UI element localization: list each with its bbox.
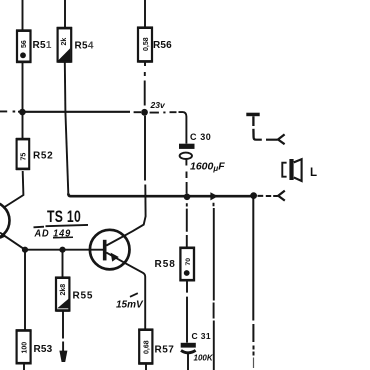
svg-text:23v: 23v xyxy=(150,100,166,110)
svg-text:0,68: 0,68 xyxy=(143,340,150,354)
svg-text:R58: R58 xyxy=(155,259,176,270)
svg-text:R55: R55 xyxy=(73,291,94,302)
svg-text:0,58: 0,58 xyxy=(143,37,150,51)
svg-text:R57: R57 xyxy=(155,344,175,355)
svg-text:R53: R53 xyxy=(34,344,53,355)
svg-text:70: 70 xyxy=(185,258,192,266)
svg-text:1600μF: 1600μF xyxy=(190,161,225,174)
svg-text:R56: R56 xyxy=(153,40,172,51)
svg-text:100K: 100K xyxy=(194,354,214,363)
svg-text:75: 75 xyxy=(20,153,27,161)
svg-text:C 30: C 30 xyxy=(190,132,211,142)
svg-text:56: 56 xyxy=(21,40,28,48)
svg-text:L: L xyxy=(310,167,317,179)
svg-text:TS 10: TS 10 xyxy=(47,208,81,226)
svg-text:C 31: C 31 xyxy=(192,331,212,341)
svg-text:R54: R54 xyxy=(75,40,94,51)
svg-text:AD 149: AD 149 xyxy=(34,228,72,239)
svg-text:100: 100 xyxy=(21,342,28,354)
svg-text:2k8: 2k8 xyxy=(60,284,67,296)
svg-text:R51: R51 xyxy=(33,40,52,51)
svg-text:2k: 2k xyxy=(61,38,68,46)
svg-text:R52: R52 xyxy=(33,150,53,161)
svg-text:15mV: 15mV xyxy=(116,300,144,311)
